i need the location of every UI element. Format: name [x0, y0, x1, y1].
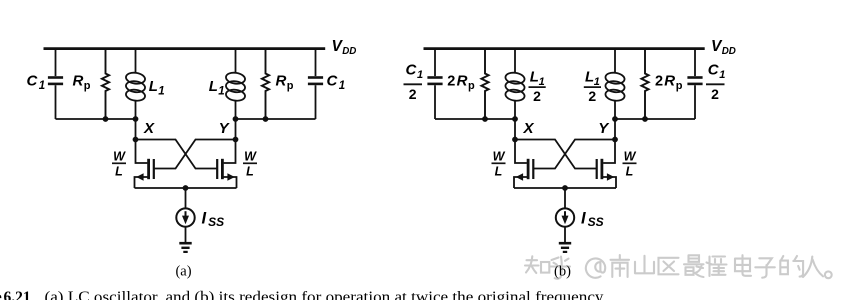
watermark glyph Nan	[611, 255, 630, 277]
junction 2Rp right / tank (b)	[642, 116, 648, 122]
watermark glyph Dian	[735, 255, 751, 276]
junction drain M1 (b)	[512, 137, 518, 143]
capacitor C1/2 right (b)	[694, 49, 696, 77]
watermark glyph Qu	[659, 258, 679, 275]
svg-text:p: p	[468, 80, 475, 92]
current source ISS (a)	[176, 208, 194, 226]
wire cross-coupling X to gate of M2 (b)	[515, 140, 597, 169]
transistor M2 (a)	[224, 140, 236, 164]
resistor Rp right (a)	[262, 49, 269, 119]
resistor 2Rp right (b)	[641, 49, 648, 119]
svg-text:L: L	[246, 165, 254, 179]
svg-text:1: 1	[417, 69, 423, 81]
node Y junction (b)	[612, 116, 618, 122]
capacitor C1 right (a)	[315, 49, 317, 77]
wire X node to cross-coupling (a)	[135, 119, 137, 140]
watermark full stop	[825, 271, 832, 278]
svg-text:I: I	[581, 210, 586, 228]
resistor 2Rp left (b)	[481, 49, 488, 119]
junction sources / tail node (a)	[183, 185, 189, 191]
wire current source to ground (b)	[564, 227, 566, 242]
junction drain M1 (a)	[133, 137, 139, 143]
svg-text:2: 2	[711, 86, 719, 102]
svg-text:e: e	[0, 289, 2, 300]
svg-text:C: C	[406, 62, 418, 79]
capacitor C1/2 left (b)	[434, 49, 436, 77]
svg-text:1: 1	[719, 69, 725, 81]
transistor M1 (b)	[515, 140, 527, 164]
junction Rp left / tank (a)	[103, 116, 109, 122]
junction drain M2 (b)	[612, 137, 618, 143]
watermark glyph Zhi	[525, 256, 549, 273]
svg-text:(b): (b)	[554, 263, 571, 279]
wire tank bottom right (a)	[236, 118, 316, 120]
ground (a)	[179, 242, 191, 245]
svg-text:p: p	[676, 80, 683, 92]
watermark glyph Shan	[635, 256, 654, 273]
wire VDD supply rail (a)	[44, 47, 326, 50]
wire VDD supply rail (b)	[424, 47, 705, 50]
ground (b)	[559, 242, 571, 245]
watermark glyph Hu	[551, 257, 571, 279]
wire cross-coupling Y to gate of M1 (b)	[533, 140, 615, 169]
svg-text:1: 1	[594, 76, 600, 88]
watermark glyph Ren	[803, 257, 823, 278]
inductor L1 left (a)	[135, 49, 137, 74]
svg-text:(a): (a)	[175, 263, 191, 279]
svg-text:1: 1	[339, 80, 345, 92]
svg-text:p: p	[287, 80, 294, 92]
svg-text:DD: DD	[342, 46, 356, 57]
wire tail to current source (b)	[564, 188, 566, 208]
wire X node to cross-coupling (b)	[514, 119, 516, 140]
svg-text:6.21: 6.21	[4, 289, 31, 300]
svg-text:2: 2	[447, 73, 455, 89]
capacitor C1 left (a)	[55, 49, 57, 77]
svg-text:SS: SS	[588, 215, 604, 229]
current source ISS (b)	[556, 208, 574, 226]
svg-text:W: W	[493, 149, 506, 163]
wire tail to current source (a)	[185, 188, 187, 208]
inductor L1/2 right (b)	[614, 49, 616, 74]
svg-text:2: 2	[533, 88, 541, 104]
watermark glyph Zui	[684, 255, 704, 277]
svg-text:C: C	[708, 62, 720, 79]
svg-text:L: L	[495, 165, 503, 179]
svg-text:DD: DD	[722, 46, 736, 57]
junction drain M2 (a)	[233, 137, 239, 143]
svg-text:1: 1	[158, 86, 164, 98]
svg-text:2: 2	[655, 73, 663, 89]
svg-text:2: 2	[409, 86, 417, 102]
junction Rp right / tank (a)	[263, 116, 269, 122]
wire cross-coupling Y to gate of M1 (a)	[154, 140, 236, 169]
svg-text:L: L	[626, 165, 634, 179]
junction sources / tail node (b)	[562, 185, 568, 191]
watermark glyph at-sign	[586, 258, 605, 277]
wire tank bottom right (b)	[615, 118, 695, 120]
junction 2Rp left / tank (b)	[482, 116, 488, 122]
node X junction (a)	[133, 116, 139, 122]
svg-text:SS: SS	[208, 215, 224, 229]
svg-text:X: X	[523, 120, 535, 137]
svg-text:W: W	[624, 149, 637, 163]
wire Y node to cross-coupling (b)	[614, 119, 616, 140]
svg-text:L: L	[209, 78, 218, 95]
wire source rail (a)	[135, 187, 237, 189]
svg-text:W: W	[113, 149, 126, 163]
svg-text:X: X	[143, 120, 155, 137]
inductor L1 right (a)	[235, 49, 237, 74]
svg-text:L: L	[149, 78, 158, 95]
svg-text:1: 1	[539, 76, 545, 88]
svg-text:C: C	[27, 72, 39, 89]
wire cross-coupling X to gate of M2 (a)	[136, 140, 218, 169]
svg-text:L: L	[115, 165, 123, 179]
wire current source to ground (a)	[185, 227, 187, 242]
svg-text:L: L	[585, 68, 594, 85]
svg-text:R: R	[664, 72, 675, 89]
wire Y node to cross-coupling (a)	[235, 119, 237, 140]
svg-text:R: R	[457, 72, 468, 89]
svg-text:(a) LC oscillator, and (b) its: (a) LC oscillator, and (b) its redesign …	[45, 289, 604, 300]
watermark glyph Dong	[707, 257, 727, 277]
wire tank bottom left (b)	[435, 118, 515, 120]
watermark glyph De	[780, 256, 803, 277]
node X junction (b)	[512, 116, 518, 122]
svg-text:1: 1	[39, 80, 45, 92]
svg-text:R: R	[73, 72, 84, 89]
svg-text:C: C	[327, 72, 339, 89]
watermark glyph Zi	[755, 258, 775, 277]
resistor Rp left (a)	[102, 49, 109, 119]
wire source rail (b)	[514, 187, 616, 189]
svg-text:L: L	[530, 68, 539, 85]
svg-text:1: 1	[218, 86, 224, 98]
node Y junction (a)	[233, 116, 239, 122]
svg-text:p: p	[84, 80, 91, 92]
svg-text:I: I	[202, 210, 207, 228]
inductor L1/2 left (b)	[514, 49, 516, 74]
transistor M1 (a)	[136, 140, 148, 164]
wire tank bottom left (a)	[56, 118, 136, 120]
transistor M2 (b)	[603, 140, 615, 164]
svg-text:W: W	[244, 149, 257, 163]
svg-text:R: R	[276, 72, 287, 89]
svg-text:2: 2	[588, 88, 596, 104]
